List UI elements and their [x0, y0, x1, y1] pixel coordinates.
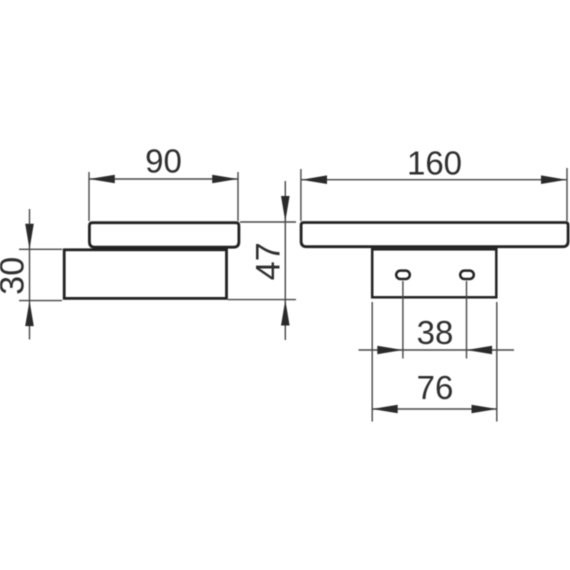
dim 47: dimension line (vertical): [284, 181, 286, 340]
dim 47: top extension line: [240, 221, 296, 223]
right screw hole: [460, 271, 474, 279]
dim 30: bottom arrowhead (up): [25, 301, 34, 327]
mounting plate, front view: [372, 249, 496, 297]
svg-text:38: 38: [417, 314, 454, 351]
dim 30: bottom extension line: [19, 300, 62, 302]
dim 160: right arrowhead: [541, 175, 567, 184]
dim 76: left arrowhead: [372, 405, 398, 414]
dim 90: left arrowhead: [89, 175, 115, 184]
dim 160: dimension line: [302, 179, 567, 181]
dim 30: top extension line: [19, 248, 62, 250]
dim 47: bottom extension line: [228, 299, 296, 301]
svg-text:160: 160: [407, 144, 462, 181]
dim 160: right extension line: [566, 168, 568, 221]
dim 76: dimension line: [372, 408, 497, 410]
dim 76: left extension line: [371, 302, 373, 422]
svg-text:90: 90: [145, 142, 182, 179]
dim 160: left extension line: [300, 169, 302, 221]
soap dish body, side view (left): [89, 223, 239, 248]
dim 47: top arrowhead (down): [281, 196, 290, 222]
wall bracket, side view (left): [64, 250, 226, 299]
dim 30: dimension line (vertical): [29, 209, 31, 340]
dim 90: left extension line: [88, 172, 90, 221]
dim 90: right arrowhead: [212, 175, 238, 184]
svg-text:47: 47: [249, 242, 287, 280]
dim 90: right extension line: [237, 172, 239, 221]
left screw hole: [396, 271, 410, 279]
dim 38: right arrowhead (points left): [467, 346, 493, 355]
dim 38: right extension line (from right hole): [466, 281, 468, 359]
svg-text:30: 30: [0, 257, 32, 295]
dim 38: left extension line (from left hole): [402, 281, 404, 359]
dim 38: left arrowhead (points right): [377, 346, 403, 355]
dim 38: dimension line: [359, 349, 515, 351]
dim 76: right extension line: [496, 302, 498, 422]
svg-text:76: 76: [417, 369, 454, 406]
dim 160: left arrowhead: [302, 175, 328, 184]
shelf bar, front view (right): [301, 223, 568, 247]
dim 47: bottom arrowhead (up): [281, 300, 290, 326]
dim 90: dimension line: [89, 178, 237, 180]
dim 76: right arrowhead: [472, 405, 498, 414]
dim 30: top arrowhead (down): [25, 224, 34, 250]
